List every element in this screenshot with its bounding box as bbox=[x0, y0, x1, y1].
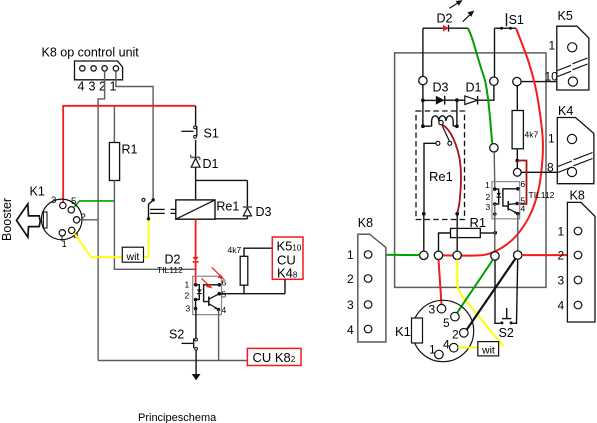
wire: red relay to D2 bbox=[195, 219, 197, 257]
opto base wire right bbox=[503, 189, 518, 206]
K1 pin1 tick bbox=[61, 236, 63, 241]
connector K8 control unit box bbox=[75, 61, 123, 80]
svg-text:2: 2 bbox=[452, 328, 459, 342]
pad D bbox=[491, 252, 499, 260]
svg-text:S1: S1 bbox=[204, 127, 219, 141]
pad P3 bbox=[513, 77, 521, 85]
svg-text:wit: wit bbox=[126, 251, 140, 263]
relay coil Re1 (left) bbox=[176, 200, 215, 219]
svg-text:K8: K8 bbox=[570, 189, 585, 203]
svg-text:2: 2 bbox=[185, 291, 190, 301]
dark red coil wire bbox=[442, 124, 461, 212]
wire: D2 top bbox=[423, 27, 468, 29]
diode D3 (left flyback) bbox=[246, 180, 248, 206]
pad A bbox=[420, 251, 428, 259]
svg-text:4k7: 4k7 bbox=[525, 130, 539, 140]
svg-text:D3: D3 bbox=[433, 81, 449, 95]
wire: relay bottom to D3 bottom bbox=[215, 218, 247, 220]
red light arrows bbox=[201, 267, 222, 287]
wire: red +rail bbox=[63, 106, 195, 203]
wire: R1 bottom down to D2 net bbox=[114, 181, 195, 270]
pad B bbox=[434, 251, 442, 259]
optocoupler package (right) bbox=[492, 182, 520, 219]
connector K5 bbox=[557, 26, 589, 90]
svg-text:1: 1 bbox=[485, 180, 490, 190]
wire: to pad P5 bbox=[516, 161, 518, 169]
pad P5 bbox=[513, 168, 521, 176]
svg-text:Principeschema: Principeschema bbox=[138, 412, 217, 423]
wire: R1 top bbox=[113, 106, 115, 143]
red wire S1 to pad B bbox=[443, 29, 543, 256]
pad C bbox=[453, 251, 461, 259]
D2 light arrows bbox=[450, 1, 474, 22]
green wire pad D to K1 pin5 bbox=[457, 260, 493, 314]
relay Re1 body (dashed) bbox=[416, 111, 465, 220]
wire: opto pin5 to 4k7 net bbox=[219, 293, 285, 295]
wire: S1 left to pad P2 bbox=[494, 28, 496, 77]
svg-text:2: 2 bbox=[558, 249, 565, 263]
K1 pin labels bbox=[51, 195, 86, 250]
LED D2 (red) bbox=[193, 257, 199, 262]
wire: K1 pin2 to K8 net bbox=[80, 219, 98, 221]
svg-text:3: 3 bbox=[558, 274, 565, 288]
svg-text:3: 3 bbox=[347, 298, 354, 312]
svg-text:4: 4 bbox=[443, 338, 450, 352]
svg-text:1: 1 bbox=[549, 39, 556, 53]
diode D1 (right) bbox=[457, 99, 465, 101]
svg-text:4: 4 bbox=[347, 323, 354, 337]
wire: contact to bottom-left terminal bbox=[424, 143, 436, 214]
label box CU K8 bbox=[247, 348, 301, 365]
opto pin numbers bbox=[185, 278, 227, 316]
wire: relay to pad C through R1 bbox=[456, 214, 458, 251]
node dot bbox=[455, 98, 459, 102]
switch S2 (right) bbox=[500, 321, 503, 324]
ground bbox=[192, 374, 201, 380]
connector K8 (right side) bbox=[567, 202, 595, 322]
wire: terminal down to pad A bbox=[423, 214, 425, 251]
LED D2 (red, right) bbox=[443, 25, 449, 32]
svg-text:10: 10 bbox=[545, 70, 559, 84]
svg-text:S2: S2 bbox=[499, 326, 514, 340]
svg-text:K1: K1 bbox=[395, 324, 411, 339]
pad E bbox=[514, 251, 522, 259]
dark red wire 4k7 to opto pin5 bbox=[517, 161, 526, 205]
svg-text:4k7: 4k7 bbox=[228, 245, 242, 255]
svg-text:K4: K4 bbox=[558, 104, 573, 118]
circuit board outline bbox=[395, 53, 546, 288]
yellow wire K1 pin4 to wit bbox=[458, 347, 478, 349]
node dot bbox=[421, 99, 425, 103]
node dot bbox=[422, 212, 426, 216]
svg-text:3: 3 bbox=[429, 303, 436, 317]
wire: opto pin2-3 to S2 bbox=[195, 300, 197, 339]
switch S1 (right) bbox=[506, 13, 508, 26]
svg-text:4: 4 bbox=[558, 299, 565, 313]
wire: CU box bottom to 4k7 net bbox=[284, 279, 286, 293]
svg-text:1: 1 bbox=[558, 225, 565, 239]
svg-text:wit: wit bbox=[481, 345, 495, 357]
svg-text:6: 6 bbox=[521, 179, 526, 189]
relay coil bbox=[432, 116, 454, 126]
opto internal LED right bbox=[495, 189, 499, 204]
svg-text:TIL112: TIL112 bbox=[157, 265, 183, 275]
wire: D1 to relay and D3 bbox=[195, 180, 197, 200]
opto pin numbers right bbox=[485, 179, 526, 214]
relay contact (left) bbox=[142, 198, 145, 201]
label box K5 CU K4 bbox=[272, 237, 303, 279]
wire: green K1 pin5 to R1 net bbox=[74, 201, 114, 207]
resistor 4k7 (left) bbox=[243, 285, 245, 294]
svg-text:Booster: Booster bbox=[0, 198, 14, 241]
pad P1 bbox=[419, 76, 427, 84]
optocoupler package (left) bbox=[193, 276, 222, 314]
wire: P5 to K4 pin8 bbox=[521, 171, 567, 173]
svg-text:1: 1 bbox=[185, 280, 190, 290]
svg-text:D1: D1 bbox=[466, 81, 482, 95]
red wire pad B to K1 pin3 bbox=[439, 260, 442, 305]
wire: yellow K1 pin4 to wit and relay contact bbox=[74, 233, 122, 257]
svg-text:CU K82: CU K82 bbox=[253, 350, 296, 365]
svg-text:3: 3 bbox=[486, 202, 491, 212]
svg-text:K5: K5 bbox=[558, 9, 573, 23]
svg-text:3: 3 bbox=[89, 80, 96, 94]
resistor 4k7 (right) bbox=[516, 86, 518, 111]
svg-text:5: 5 bbox=[222, 290, 227, 300]
svg-text:K1: K1 bbox=[30, 185, 45, 199]
resistor R1 bbox=[109, 143, 119, 181]
svg-text:R1: R1 bbox=[122, 143, 138, 157]
coil left leg bbox=[423, 100, 432, 126]
K1 pin 5 bbox=[68, 207, 74, 213]
svg-text:8: 8 bbox=[547, 161, 554, 175]
wire: opto pin4 down to pad E bbox=[517, 214, 519, 251]
svg-text:5: 5 bbox=[443, 316, 450, 330]
green wire K8 pin1 to pad A bbox=[372, 254, 420, 256]
svg-text:K8 op control unit: K8 op control unit bbox=[42, 46, 140, 60]
diode D1 (zener, left) bbox=[195, 140, 197, 157]
svg-text:2: 2 bbox=[486, 192, 491, 202]
K1 pin 1 bbox=[59, 230, 65, 236]
opto phototransistor bbox=[208, 297, 210, 307]
wire: S2 to ground bbox=[195, 350, 197, 374]
svg-text:D3: D3 bbox=[256, 205, 272, 219]
label box wit (right) bbox=[478, 342, 499, 356]
wire: opto pin2-3 down to pad D bbox=[494, 204, 496, 252]
diode D3 (right) bbox=[423, 99, 436, 101]
wire: D2 left leg bbox=[422, 28, 424, 76]
opto pins dots left bbox=[194, 283, 198, 287]
pad P4 bbox=[490, 144, 498, 152]
svg-text:4: 4 bbox=[222, 305, 227, 315]
connector K1 (right, DIN plug) bbox=[412, 300, 473, 361]
connector K1 (DIN socket) bbox=[41, 199, 82, 240]
svg-text:1: 1 bbox=[347, 248, 354, 262]
svg-text:Re1: Re1 bbox=[216, 200, 239, 214]
svg-text:TIL112: TIL112 bbox=[529, 190, 555, 200]
svg-text:3: 3 bbox=[51, 195, 56, 206]
svg-text:1: 1 bbox=[429, 343, 436, 357]
opto base wire pin6 bbox=[204, 285, 220, 302]
K1 key notch bbox=[43, 212, 47, 228]
red wire pad E to K8 pin2 bbox=[522, 254, 574, 256]
svg-text:5: 5 bbox=[71, 196, 76, 207]
wire: pin1 to relay contact bbox=[116, 71, 153, 198]
svg-text:2: 2 bbox=[81, 212, 86, 223]
label box wit bbox=[122, 247, 143, 262]
black wire pad E to K1 pin2 bbox=[466, 259, 515, 331]
yellow wire pad C to wit bbox=[457, 260, 503, 347]
connector K8 (left side) bbox=[358, 234, 386, 342]
K1 pin 3 bbox=[60, 202, 66, 208]
wire: P4 to opto pin1 bbox=[493, 152, 496, 188]
wire: pad D down to S2 bbox=[495, 260, 500, 323]
coil right leg bbox=[453, 100, 457, 126]
connector K4 bbox=[557, 118, 594, 184]
svg-text:4: 4 bbox=[521, 204, 526, 214]
resistor R1 (right) bbox=[451, 228, 481, 237]
relay contacts bbox=[436, 141, 440, 145]
wire: opto pin4 down to rail bbox=[218, 310, 220, 361]
svg-text:1: 1 bbox=[548, 132, 555, 146]
svg-text:S2: S2 bbox=[169, 328, 184, 342]
wire: P3 to K5 pin10 bbox=[521, 81, 568, 83]
K1 pin 2 bbox=[73, 217, 79, 223]
svg-text:S1: S1 bbox=[509, 13, 524, 27]
relay armature lever bbox=[442, 124, 450, 140]
svg-text:R1: R1 bbox=[470, 215, 487, 230]
relay armature pivot bbox=[439, 120, 443, 124]
relay actuator link bbox=[150, 208, 165, 210]
svg-text:Re1: Re1 bbox=[429, 169, 453, 184]
wire: P1 to D3 bbox=[422, 85, 424, 101]
svg-text:2: 2 bbox=[347, 272, 354, 286]
switch S1 (left) bbox=[195, 106, 197, 126]
Booster arrow bbox=[17, 204, 41, 237]
wire: bottom rail to CU K8 box bbox=[98, 360, 247, 362]
svg-text:4: 4 bbox=[78, 80, 85, 94]
opto pins dots right panel bbox=[493, 187, 497, 191]
svg-text:3: 3 bbox=[186, 304, 191, 314]
svg-text:D1: D1 bbox=[203, 157, 219, 171]
pad P2 bbox=[490, 77, 498, 85]
connector pin holes bbox=[80, 66, 119, 71]
wire: pin2 to bottom rail bbox=[98, 71, 105, 360]
pin labels 4 3 2 1 bbox=[78, 80, 117, 94]
svg-text:D2: D2 bbox=[437, 12, 453, 26]
opto internal LED bbox=[196, 285, 200, 300]
green wire D2 to P4 bbox=[468, 28, 492, 144]
opto phototransistor right bbox=[507, 201, 509, 211]
svg-text:K8: K8 bbox=[358, 216, 373, 230]
K1 pin 4 bbox=[69, 227, 75, 233]
wire: pad E down to S2 bbox=[513, 259, 518, 323]
